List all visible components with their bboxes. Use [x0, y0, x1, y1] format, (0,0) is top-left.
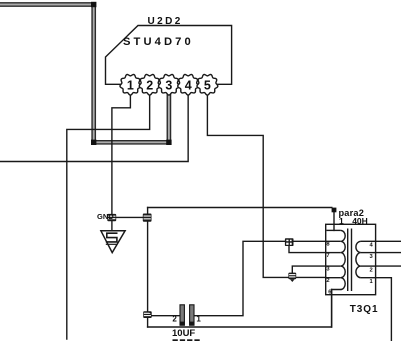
- svg-text:GND: GND: [97, 212, 114, 221]
- svg-text:3: 3: [165, 78, 172, 92]
- svg-text:1: 1: [339, 216, 344, 226]
- svg-text:U2D2: U2D2: [148, 16, 183, 27]
- svg-text:T3Q1: T3Q1: [350, 304, 379, 315]
- svg-text:40H: 40H: [352, 216, 368, 226]
- svg-text:4: 4: [185, 78, 192, 92]
- svg-text:7: 7: [326, 253, 329, 259]
- svg-text:2: 2: [172, 315, 177, 324]
- svg-text:2: 2: [146, 78, 153, 92]
- svg-text:10UF: 10UF: [172, 328, 195, 339]
- svg-text:2: 2: [326, 278, 329, 284]
- svg-text:5: 5: [204, 78, 211, 92]
- svg-text:STU4D70: STU4D70: [123, 36, 194, 48]
- svg-text:1: 1: [127, 78, 134, 92]
- svg-text:2: 2: [370, 267, 373, 273]
- svg-text:1: 1: [196, 315, 201, 324]
